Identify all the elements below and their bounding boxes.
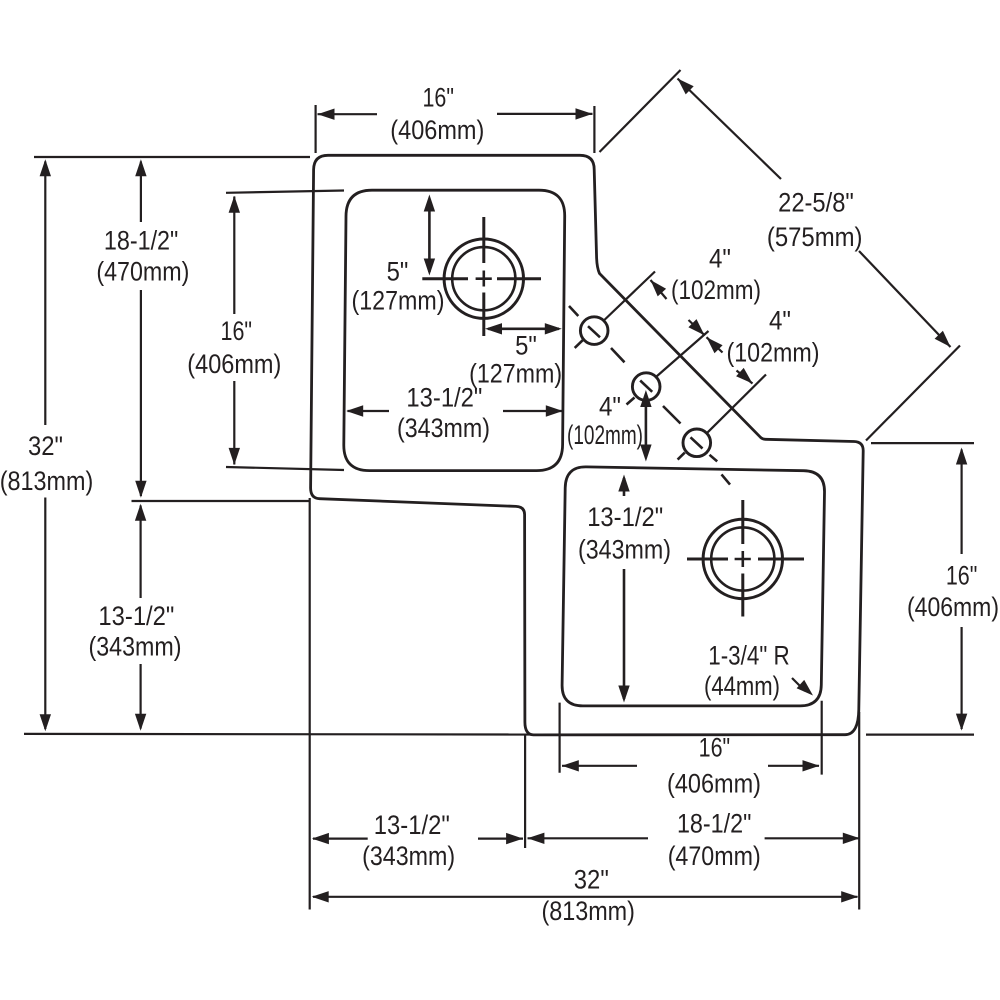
dimension 16in top [318,113,378,115]
dimension 13-1/2 bowl2 height [623,478,626,496]
svg-text:(343mm): (343mm) [89,632,182,662]
faucet hole 1 [580,317,608,345]
dimension 22-5/8 line + arrows [678,79,782,180]
drain 1 outer circle [444,239,523,318]
svg-text:1-3/4" R: 1-3/4" R [708,641,790,671]
svg-text:(343mm): (343mm) [397,413,490,443]
svg-text:4": 4" [709,244,731,274]
extension line step vertical [524,735,526,848]
svg-text:(102mm): (102mm) [671,275,761,305]
bowl 1 (upper-left basin) [344,190,565,470]
bowl2 16in extension lines [558,703,560,773]
drain 2 outer circle [703,519,782,598]
faucet hole 1 perpendicular extension line [604,272,655,321]
svg-text:(406mm): (406mm) [667,768,761,798]
dimension 5in horizontal (drain to bowl1 edge) [488,327,559,330]
sink deck outline [311,155,864,735]
svg-text:32": 32" [574,865,609,895]
dimension 16in right [960,450,962,555]
extension line bottom long horizontal [24,733,533,736]
dimension 16 left (bowl1 height) [233,197,235,315]
svg-text:4": 4" [599,392,621,422]
extension line top-left horizontal [34,156,310,158]
dimension 13-1/2 bottom [313,837,368,839]
svg-text:16": 16" [221,316,253,346]
dimension 18-1/2 left [140,162,142,223]
svg-text:(102mm): (102mm) [567,420,643,450]
svg-text:(406mm): (406mm) [390,115,484,145]
dimension 16in bowl2 [562,765,637,767]
svg-text:4": 4" [769,306,791,336]
dimension 32 left [44,162,46,426]
svg-text:(813mm): (813mm) [541,896,635,926]
extension line right vertical (down from deck corner) [858,712,860,910]
svg-text:5": 5" [387,257,409,287]
dimension 18-1/2 bottom [528,837,649,839]
dimension 32 bottom [313,896,858,898]
svg-text:(343mm): (343mm) [362,841,455,871]
svg-text:(102mm): (102mm) [727,338,820,368]
faucet hole centerline (dashed) [569,306,730,485]
22-5/8 extension line upper [600,70,681,152]
svg-text:(127mm): (127mm) [469,359,562,389]
svg-text:(127mm): (127mm) [352,286,445,316]
right 16in extension lines [871,442,974,444]
svg-text:(470mm): (470mm) [96,256,189,286]
drain 2 crosshair [687,500,804,617]
svg-text:13-1/2": 13-1/2" [98,601,174,631]
faucet hole 2 [632,373,660,401]
bowl 2 (lower-right basin) [562,467,824,706]
dimension 13-1/2 left [140,506,142,599]
drain 2 inner circle [711,527,774,590]
svg-text:(575mm): (575mm) [767,222,863,252]
corner radius leader arrow [792,678,805,691]
bowl1 bottom extension line [226,467,344,470]
svg-text:13-1/2": 13-1/2" [374,810,450,840]
drain 1 crosshair [422,217,541,336]
svg-text:18-1/2": 18-1/2" [104,225,179,255]
svg-text:32": 32" [28,431,63,461]
faucet hole 3 [683,429,711,457]
svg-text:5": 5" [515,331,537,361]
dimension 5in vertical (bowl1 top to drain) [428,199,431,272]
svg-text:(406mm): (406mm) [187,349,281,379]
bowl1 top extension line [226,191,344,193]
svg-text:18-1/2": 18-1/2" [677,809,752,839]
dimension 4in between hole2-hole3: arrows [707,337,723,352]
svg-text:(406mm): (406mm) [907,592,999,622]
dimension 13-1/2 bowl1 width [348,410,390,412]
drain 1 inner circle [452,247,515,310]
faucet hole 2 perpendicular extension line [656,331,709,377]
extension line left vertical (down from deck corner) [309,498,311,910]
dimension 4in vertical (hole2 to bowl2 edge) [645,395,648,456]
top 16in extension ticks [315,105,317,153]
22-5/8 extension line lower [866,346,960,441]
svg-text:16": 16" [699,733,731,763]
svg-text:16": 16" [946,561,978,591]
svg-text:22-5/8": 22-5/8" [778,188,854,218]
svg-text:(813mm): (813mm) [0,466,93,496]
extension line mid-left horizontal (18-1/2 level) [132,500,310,502]
faucet hole 3 perpendicular extension line [707,375,766,434]
dimension 4in between hole1-hole2: arrows [651,280,667,299]
svg-text:(343mm): (343mm) [578,535,671,565]
svg-text:(470mm): (470mm) [668,841,761,871]
svg-text:(44mm): (44mm) [704,671,780,701]
svg-text:13-1/2": 13-1/2" [406,383,482,413]
svg-text:13-1/2": 13-1/2" [587,502,663,532]
svg-text:16": 16" [422,83,454,113]
